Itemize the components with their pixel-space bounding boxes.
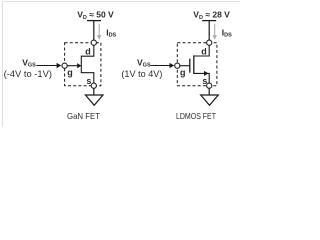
svg-text:VD ≈ 28 V: VD ≈ 28 V [193, 10, 230, 21]
wire: supply to drain node [93, 21, 95, 41]
gate node circle [62, 63, 67, 68]
gate wire inside box [180, 65, 190, 67]
ground stem [93, 88, 95, 95]
wire: supply to drain node [208, 21, 210, 41]
gate drive arrowhead [57, 63, 62, 68]
drain node circle [207, 40, 212, 45]
LDMOS source lead [194, 73, 209, 83]
source node circle [207, 83, 212, 88]
ground stem [208, 88, 210, 95]
GaN FET body (step channel) [81, 45, 94, 83]
supply rail T-bar [202, 20, 216, 22]
gate wire inside box [67, 65, 77, 67]
svg-text:VD ≈ 50 V: VD ≈ 50 V [77, 10, 114, 21]
ground symbol [201, 95, 219, 105]
gate drive arrowhead [170, 63, 175, 68]
svg-text:d: d [85, 47, 91, 57]
svg-text:GaN FET: GaN FET [67, 111, 100, 121]
svg-text:(1V to 4V): (1V to 4V) [121, 69, 162, 79]
dashed package box (GaN) [65, 43, 101, 86]
figure border top [2, 1, 240, 3]
gate arrowhead [77, 63, 81, 68]
LDMOS drain lead [194, 45, 209, 56]
source arrowhead [204, 71, 209, 76]
ground symbol [85, 95, 103, 105]
LDMOS channel bar [193, 55, 195, 74]
svg-text:g: g [180, 68, 186, 78]
source node circle [91, 83, 96, 88]
svg-text:LDMOS FET: LDMOS FET [176, 111, 216, 121]
svg-text:g: g [67, 68, 73, 78]
svg-text:s: s [86, 76, 91, 86]
drain node circle [91, 40, 96, 45]
dashed package box (LDMOS) [177, 43, 217, 86]
supply rail T-bar [87, 20, 101, 22]
gate drive wire [36, 65, 57, 67]
gate node circle [175, 63, 180, 68]
figure border left [1, 2, 3, 128]
gate drive wire [151, 65, 170, 67]
IDS current arrow (gray) [212, 24, 217, 40]
IDS current arrow (gray) [97, 24, 102, 40]
svg-text:(-4V to -1V): (-4V to -1V) [4, 69, 52, 79]
svg-text:s: s [202, 76, 207, 86]
svg-text:d: d [201, 46, 207, 56]
LDMOS gate bar [189, 59, 191, 73]
